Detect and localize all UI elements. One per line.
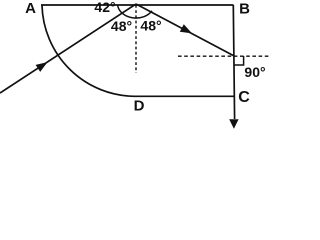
svg-text:D: D	[134, 98, 145, 115]
normal dashed vertical at incidence point	[135, 5, 137, 73]
svg-text:C: C	[238, 89, 250, 106]
svg-text:B: B	[239, 1, 250, 18]
reflected ray arrowhead	[180, 24, 192, 33]
down arrowhead at bottom of BC	[229, 119, 238, 129]
reflected ray	[136, 4, 234, 56]
svg-text:48°: 48°	[140, 18, 161, 34]
right-angle square at right edge	[235, 56, 244, 65]
right edge BC with arrow	[233, 5, 234, 119]
angle arc at incidence vertex	[118, 5, 152, 18]
svg-text:A: A	[25, 0, 36, 17]
normal dashed horizontal at right edge	[178, 55, 271, 57]
bottom edge DC	[134, 95, 234, 97]
svg-text:48°: 48°	[111, 18, 132, 34]
incident ray	[0, 4, 136, 93]
mirror top edge AB	[41, 4, 234, 6]
incident ray arrowhead	[36, 62, 48, 72]
svg-text:42°: 42°	[94, 0, 115, 15]
curved mirror arc A to D	[42, 6, 135, 97]
svg-text:90°: 90°	[244, 64, 265, 80]
